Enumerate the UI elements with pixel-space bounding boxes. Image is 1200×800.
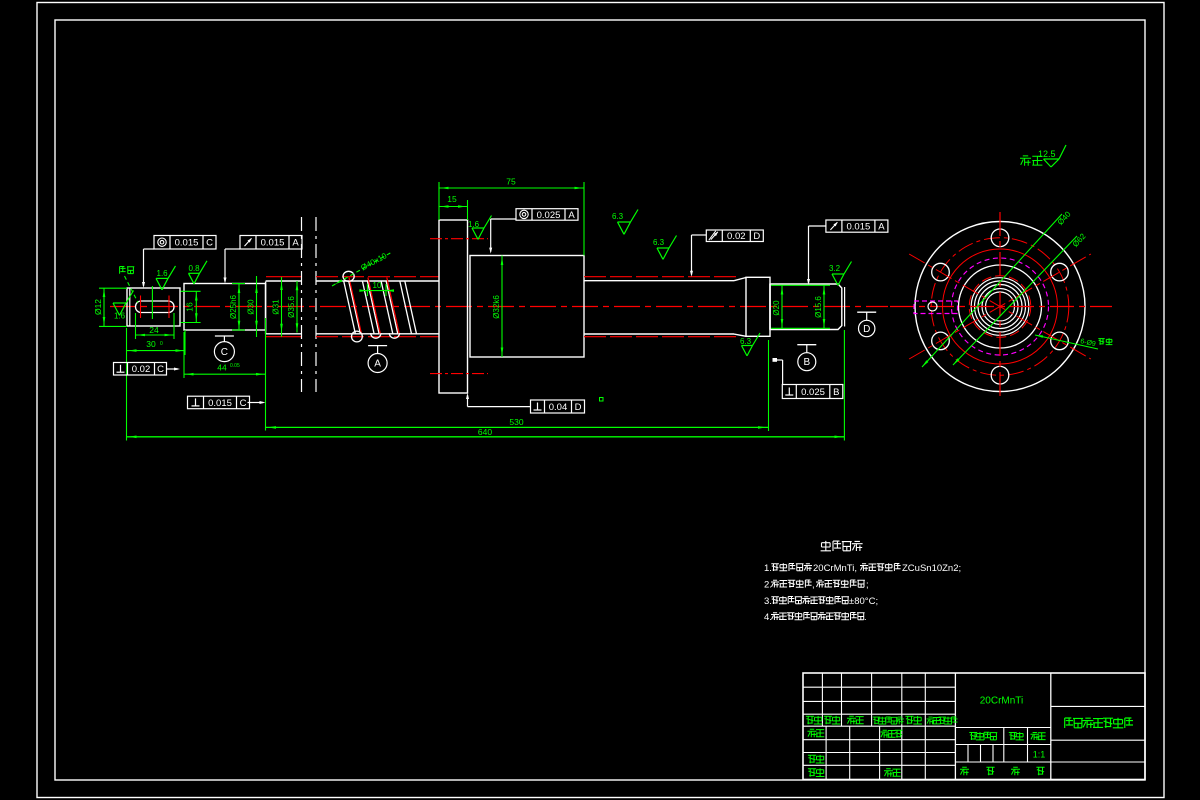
flange plate outline <box>439 220 468 393</box>
technical requirements text <box>764 541 961 623</box>
svg-text:0.04: 0.04 <box>549 402 568 413</box>
svg-text:0.015: 0.015 <box>261 238 285 249</box>
svg-text:C: C <box>221 347 228 358</box>
svg-text:ZCuSn10Zn2;: ZCuSn10Zn2; <box>902 563 961 574</box>
svg-text:16: 16 <box>185 302 195 312</box>
svg-text:Ø15.6: Ø15.6 <box>814 296 823 318</box>
taper to section D <box>734 278 746 337</box>
flange bolt hole centerline top <box>430 238 488 240</box>
svg-text:4.: 4. <box>764 612 772 623</box>
svg-text:Ø25h6: Ø25h6 <box>229 294 238 319</box>
svg-text:0.015: 0.015 <box>175 238 199 249</box>
bolt holes 6x <box>932 229 1069 384</box>
svg-text:C: C <box>206 238 213 249</box>
svg-text:0.02: 0.02 <box>132 364 151 375</box>
thread root red C <box>584 277 738 337</box>
shaft section D outline <box>746 277 770 336</box>
general roughness note <box>1020 145 1066 167</box>
roughness 6.3 b <box>653 236 677 260</box>
flange leader bolt holes <box>1035 335 1112 349</box>
svg-text:A: A <box>292 238 299 249</box>
title block text <box>806 696 1133 777</box>
dim 15 <box>439 194 468 220</box>
svg-text:Ø20: Ø20 <box>772 300 781 316</box>
center hole callout <box>120 267 138 303</box>
svg-text:3.: 3. <box>764 596 772 607</box>
svg-text:1.: 1. <box>764 563 772 574</box>
roughness 0.8 section2 <box>189 261 208 284</box>
svg-text:0.8: 0.8 <box>189 264 201 273</box>
keyway magenta detail <box>914 301 958 314</box>
fcf concentricity 0.025 A <box>489 209 578 254</box>
svg-text:0.05: 0.05 <box>230 363 240 369</box>
svg-text:0.025: 0.025 <box>537 210 561 221</box>
flange centerline horizontal <box>890 306 1112 308</box>
flange leader 2 <box>953 231 1088 365</box>
dim 30 length <box>127 328 186 355</box>
svg-text:0.015: 0.015 <box>208 398 232 409</box>
dim 24 keyway <box>136 313 175 339</box>
svg-text:2.: 2. <box>764 580 772 591</box>
fcf perpendicularity 0.04 D <box>466 393 603 413</box>
svg-text:24: 24 <box>149 325 159 335</box>
svg-text:Ø35.6: Ø35.6 <box>287 296 296 318</box>
svg-text:1.6: 1.6 <box>157 269 169 278</box>
datum D <box>857 312 876 336</box>
svg-text:1.6: 1.6 <box>468 220 480 229</box>
dim 10 thread pitch <box>359 281 394 296</box>
svg-text:Ø32k6: Ø32k6 <box>492 295 501 319</box>
thread root circle red <box>969 276 1031 338</box>
dim Ø31 section3 <box>272 277 283 337</box>
title block grid <box>803 673 1145 780</box>
svg-text:±80°C;: ±80°C; <box>849 596 878 607</box>
shaft section 3 outline <box>266 281 302 334</box>
datum C <box>214 336 234 362</box>
roughness 3.2 right <box>829 262 852 286</box>
red circle d115 <box>943 249 1058 364</box>
svg-text:3.2: 3.2 <box>829 264 841 273</box>
svg-text:10: 10 <box>373 281 382 290</box>
shaft centerline <box>110 306 888 308</box>
svg-text:20CrMnTi,: 20CrMnTi, <box>813 563 857 574</box>
thread section outline B <box>316 281 439 334</box>
roughness 1.6 on keyway <box>113 291 134 321</box>
svg-text:6.3: 6.3 <box>740 337 752 346</box>
svg-text:44: 44 <box>217 363 227 373</box>
svg-text:D: D <box>863 324 870 335</box>
svg-text:A: A <box>878 222 885 233</box>
bolt circle red <box>931 238 1069 376</box>
svg-text:;: ; <box>866 580 869 591</box>
keyway centerlines red <box>141 296 170 319</box>
thread root red section 3 <box>266 277 302 337</box>
svg-text:D: D <box>575 402 582 413</box>
svg-text:0.015: 0.015 <box>847 222 871 233</box>
svg-text:B: B <box>803 357 810 368</box>
svg-text:1.6: 1.6 <box>114 312 126 321</box>
break line left <box>301 217 303 392</box>
dim Ø12 left end <box>93 288 127 326</box>
shaft circles center <box>971 278 1029 336</box>
dim Ø20 right journal <box>771 285 830 328</box>
fcf circular runout 0.02 D <box>690 230 763 277</box>
flange diagonal centerlines <box>909 254 1091 359</box>
ball screw helix thread <box>343 271 417 342</box>
svg-text:0: 0 <box>160 341 163 347</box>
flange hub circle <box>959 265 1042 348</box>
svg-text:Ø12: Ø12 <box>93 299 103 315</box>
thread designation leader <box>332 251 392 286</box>
svg-text:C: C <box>157 364 164 375</box>
dim 530 <box>266 318 769 431</box>
dim Ø25 section2 <box>229 284 245 331</box>
fcf concentricity 0.015 C <box>142 236 216 289</box>
roughness 1.6 section1 <box>156 266 176 290</box>
thread section outline C <box>584 281 734 334</box>
svg-text:B: B <box>833 387 839 398</box>
svg-text:6.3: 6.3 <box>612 212 624 221</box>
svg-text:640: 640 <box>478 427 492 437</box>
roughness 1.6 flange <box>468 216 492 240</box>
svg-text:30: 30 <box>146 339 156 349</box>
svg-text:,: , <box>812 580 815 591</box>
fcf runout 0.015 A right <box>807 220 888 285</box>
fcf perpendicularity 0.025 B <box>773 358 843 399</box>
flange centerline vertical <box>999 212 1001 400</box>
svg-text:C: C <box>240 398 247 409</box>
right journal outline <box>770 284 845 330</box>
svg-text:6.3: 6.3 <box>653 238 665 247</box>
svg-text:1:1: 1:1 <box>1033 750 1046 760</box>
flange bolt hole centerline bottom <box>430 373 488 375</box>
svg-text:75: 75 <box>506 177 516 187</box>
svg-text:.: . <box>864 612 867 623</box>
break line right <box>315 217 317 392</box>
dim 44 length <box>184 332 266 378</box>
datum B <box>797 345 816 371</box>
dim 75 <box>439 177 584 256</box>
svg-text:0.02: 0.02 <box>727 231 746 242</box>
svg-text:0.025: 0.025 <box>801 387 825 398</box>
shaft section 1 outline <box>127 288 180 326</box>
svg-text:15: 15 <box>447 194 457 204</box>
dim 16 keyway width <box>152 286 200 323</box>
flange leader 1 <box>922 209 1073 367</box>
svg-text:A: A <box>568 210 575 221</box>
roughness 6.3 a <box>612 210 638 235</box>
svg-text:D: D <box>753 231 760 242</box>
svg-text:Ø30: Ø30 <box>247 299 256 315</box>
keyway slot <box>136 301 175 313</box>
dim Ø36 section3 <box>287 281 298 333</box>
dim 640 <box>127 330 845 441</box>
fcf runout 0.015 A left <box>224 236 303 284</box>
svg-text:20CrMnTi: 20CrMnTi <box>980 696 1024 707</box>
magenta ball pitch circle <box>952 258 1049 355</box>
svg-text:12.5: 12.5 <box>1038 149 1056 159</box>
dim Ø16 right journal <box>814 285 825 328</box>
svg-text:530: 530 <box>509 417 523 427</box>
svg-text:A: A <box>374 359 381 370</box>
roughness 6.3 below <box>740 333 760 356</box>
dim Ø32 cylinder <box>492 256 503 358</box>
fcf perpendicularity 0.015 C <box>188 396 266 409</box>
datum A <box>368 346 387 373</box>
fcf perpendicularity 0.02 C <box>114 363 181 376</box>
svg-text:Ø31: Ø31 <box>272 299 281 315</box>
dim Ø30 section2 <box>247 276 258 337</box>
thread root red B <box>316 277 439 337</box>
bearing cylinder outline <box>470 256 584 358</box>
flange outer circle <box>915 222 1085 392</box>
shaft section 2 outline <box>184 284 266 331</box>
